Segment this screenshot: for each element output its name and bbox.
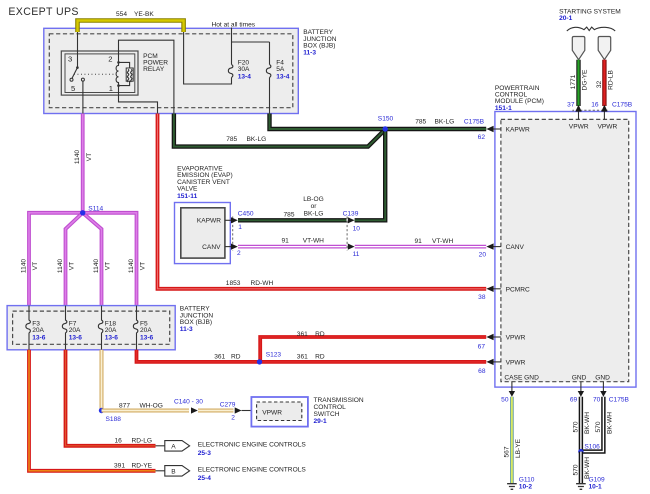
relay dotted link bbox=[74, 73, 116, 75]
connector terminal (to starting system, left) bbox=[572, 37, 585, 60]
svg-text:1140: 1140 bbox=[20, 259, 27, 274]
svg-text:VPWR: VPWR bbox=[506, 360, 526, 367]
svg-text:1140: 1140 bbox=[128, 259, 135, 274]
svg-text:67: 67 bbox=[478, 343, 486, 350]
svg-text:S188: S188 bbox=[106, 416, 122, 423]
svg-text:VT: VT bbox=[32, 262, 39, 270]
svg-text:785: 785 bbox=[226, 136, 237, 143]
PCM pin 70 GND bbox=[593, 374, 630, 403]
svg-text:62: 62 bbox=[478, 134, 486, 141]
svg-text:VPWR: VPWR bbox=[506, 335, 526, 342]
svg-text:361: 361 bbox=[297, 331, 308, 338]
svg-text:570: 570 bbox=[595, 421, 602, 432]
svg-text:VT: VT bbox=[86, 153, 93, 161]
fuse F18 20A bbox=[98, 306, 118, 350]
svg-text:ELECTRONIC ENGINE CONTROLS: ELECTRONIC ENGINE CONTROLS bbox=[198, 442, 307, 449]
wire 877 WH-OG (C140-30 to C279) bbox=[198, 409, 233, 413]
svg-text:30A: 30A bbox=[238, 66, 250, 73]
wire 16 RD-LG (F7 to A) bbox=[66, 350, 156, 446]
svg-text:70: 70 bbox=[593, 397, 601, 404]
svg-text:BK-WH: BK-WH bbox=[584, 412, 591, 434]
label EVAP valve 151-11 bbox=[177, 165, 233, 200]
svg-text:GND: GND bbox=[572, 374, 587, 381]
svg-text:361: 361 bbox=[297, 354, 308, 361]
connector C140-30 bbox=[174, 398, 203, 413]
svg-text:1140: 1140 bbox=[74, 150, 81, 165]
svg-text:VPWR: VPWR bbox=[262, 410, 282, 417]
svg-text:2: 2 bbox=[231, 415, 235, 422]
svg-text:BK-LG: BK-LG bbox=[435, 119, 455, 126]
PCM pin 16 VPWR (top) bbox=[591, 102, 633, 131]
svg-text:1140: 1140 bbox=[93, 259, 100, 274]
svg-text:20A: 20A bbox=[140, 327, 152, 334]
svg-text:C175B: C175B bbox=[609, 397, 630, 404]
svg-text:32: 32 bbox=[596, 81, 603, 89]
svg-text:29-1: 29-1 bbox=[314, 418, 328, 425]
svg-text:EXCEPT UPS: EXCEPT UPS bbox=[8, 6, 78, 18]
svg-text:YE-BK: YE-BK bbox=[134, 11, 154, 18]
svg-text:2: 2 bbox=[237, 250, 241, 257]
svg-text:151-11: 151-11 bbox=[177, 193, 198, 200]
arrow B to electronic engine controls bbox=[156, 466, 307, 482]
label battery junction box 11-3 (lower) bbox=[180, 306, 214, 333]
svg-text:BK-WH: BK-WH bbox=[607, 412, 614, 434]
label 1853 RD-WH bbox=[226, 280, 274, 287]
wire 785 BK-LG (S150 down to C139 pin 10) bbox=[355, 129, 386, 220]
wire 1853 RD-WH (relay pin1 to PCM PCMRC) bbox=[158, 114, 487, 289]
wire 570 BK-WH (pin 69 to S106) bbox=[572, 397, 591, 452]
svg-text:RD: RD bbox=[231, 354, 241, 361]
svg-text:1140: 1140 bbox=[57, 259, 64, 274]
PCM pin 68 VPWR bbox=[478, 359, 525, 375]
PCM pin 62 KAPWR bbox=[478, 126, 530, 141]
svg-text:1853: 1853 bbox=[226, 280, 241, 287]
svg-text:785: 785 bbox=[415, 119, 426, 126]
svg-text:ELECTRONIC ENGINE CONTROLS: ELECTRONIC ENGINE CONTROLS bbox=[198, 467, 307, 474]
svg-text:RD: RD bbox=[315, 331, 325, 338]
wire 785 BK-LG (S150 to PCM KAPWR pin 62) bbox=[385, 119, 486, 129]
splice S106 bbox=[578, 444, 600, 455]
PCM pin 20 CANV bbox=[479, 243, 525, 258]
PCM pin 50 CASE GND bbox=[501, 374, 539, 403]
svg-text:68: 68 bbox=[478, 368, 486, 375]
svg-text:11-3: 11-3 bbox=[180, 326, 193, 333]
svg-text:1: 1 bbox=[238, 224, 242, 231]
connector C139 dashed bbox=[343, 210, 359, 250]
svg-text:RD-YE: RD-YE bbox=[132, 462, 153, 469]
svg-text:BK-LG: BK-LG bbox=[304, 211, 324, 218]
relay pin 1 wire to RD exit bbox=[119, 86, 158, 114]
PCM pin 38 PCMRC bbox=[478, 286, 530, 302]
fuse F4 5A bbox=[266, 59, 289, 80]
splice S123 bbox=[257, 351, 282, 364]
powertrain control module PCM bbox=[495, 112, 636, 388]
svg-text:VPWR: VPWR bbox=[598, 124, 618, 131]
svg-text:20A: 20A bbox=[69, 327, 81, 334]
svg-text:CASE GND: CASE GND bbox=[504, 374, 539, 381]
wire 361 RD (S123 up to PCM VPWR pin 67) bbox=[260, 331, 486, 362]
svg-text:50: 50 bbox=[501, 397, 509, 404]
svg-text:361: 361 bbox=[214, 354, 225, 361]
svg-text:91: 91 bbox=[415, 238, 423, 245]
wire from YE-BK drop to F20 bottom (inside BJB) bbox=[184, 32, 232, 84]
svg-text:C279: C279 bbox=[220, 401, 236, 408]
svg-text:CANV: CANV bbox=[202, 244, 221, 251]
svg-text:13-4: 13-4 bbox=[238, 74, 252, 81]
svg-text:RD-LG: RD-LG bbox=[132, 437, 153, 444]
EVAP pin 2 bbox=[225, 244, 241, 257]
relay coil bbox=[116, 61, 133, 87]
svg-text:11: 11 bbox=[353, 251, 360, 258]
wire 877 WH-OG (S188 to C140-30) bbox=[102, 402, 190, 410]
svg-text:C139: C139 bbox=[343, 210, 359, 217]
PCM pin 67 VPWR bbox=[478, 334, 526, 351]
svg-text:C140 - 30: C140 - 30 bbox=[174, 398, 203, 405]
svg-text:RD-WH: RD-WH bbox=[251, 280, 274, 287]
svg-text:RELAY: RELAY bbox=[143, 66, 165, 73]
svg-text:38: 38 bbox=[478, 294, 486, 301]
connector C175B dashed notch (PCM top) bbox=[573, 110, 609, 111]
svg-text:LB-YE: LB-YE bbox=[515, 438, 522, 458]
svg-text:C450: C450 bbox=[238, 210, 254, 217]
EVAP canister vent valve U-EVAP bbox=[175, 203, 231, 264]
svg-text:VT: VT bbox=[69, 262, 76, 270]
fuse F7 20A bbox=[62, 306, 82, 350]
svg-text:VALVE: VALVE bbox=[177, 186, 198, 193]
svg-text:5A: 5A bbox=[276, 66, 285, 73]
svg-text:91: 91 bbox=[282, 238, 290, 245]
svg-text:11-3: 11-3 bbox=[303, 49, 316, 56]
svg-text:570: 570 bbox=[572, 421, 579, 432]
svg-text:13-6: 13-6 bbox=[105, 335, 119, 342]
svg-text:S150: S150 bbox=[378, 116, 394, 123]
svg-text:SWITCH: SWITCH bbox=[314, 411, 340, 418]
label transmission control switch 29-1 bbox=[314, 397, 364, 425]
svg-text:S123: S123 bbox=[266, 351, 282, 358]
battery junction box BJB (lower) bbox=[7, 306, 175, 350]
svg-text:WH-OG: WH-OG bbox=[140, 402, 163, 409]
svg-text:69: 69 bbox=[570, 397, 578, 404]
svg-text:1: 1 bbox=[109, 84, 113, 93]
svg-text:PCMRC: PCMRC bbox=[506, 286, 530, 293]
fuse F5 20A bbox=[133, 306, 153, 350]
svg-text:VT-WH: VT-WH bbox=[303, 238, 324, 245]
svg-text:16: 16 bbox=[115, 437, 123, 444]
wire 1140 VT branch 1 bbox=[20, 213, 82, 306]
wire 361 RD (F5 to S123 to PCM VPWR pin 68) bbox=[137, 350, 487, 362]
battery junction box BJB (top) bbox=[44, 28, 298, 113]
EVAP pin 1 bbox=[225, 217, 242, 231]
splice S114 bbox=[80, 210, 85, 215]
svg-text:785: 785 bbox=[284, 211, 295, 218]
svg-text:20: 20 bbox=[479, 252, 487, 259]
svg-text:KAPWR: KAPWR bbox=[197, 218, 221, 225]
label 554 YE-BK bbox=[116, 11, 154, 18]
wire F4 bottom down to BJB edge bbox=[269, 78, 271, 114]
relay pin 2 wire to F4 drop bbox=[119, 40, 174, 113]
wire 1140 VT branch 4 bbox=[83, 213, 147, 306]
label PCM POWER RELAY bbox=[143, 53, 168, 73]
wire 785 BK-LG (relay pin2 branch to S150) bbox=[174, 114, 385, 147]
fuse F20 30A bbox=[228, 59, 251, 80]
wire 785 BK-LG (F4 branch to S150) bbox=[270, 114, 386, 130]
svg-text:RD-LB: RD-LB bbox=[608, 70, 615, 90]
svg-text:VPWR: VPWR bbox=[569, 124, 589, 131]
svg-text:554: 554 bbox=[116, 11, 127, 18]
wire 554 YE-BK bbox=[78, 21, 184, 33]
wire 567 LB-YE (pin 50 to G110) bbox=[503, 397, 522, 484]
svg-text:CANV: CANV bbox=[506, 244, 525, 251]
svg-text:or: or bbox=[311, 203, 318, 210]
svg-text:16: 16 bbox=[591, 102, 599, 109]
svg-text:10-2: 10-2 bbox=[519, 483, 533, 490]
C139 pin 10 bbox=[348, 217, 360, 232]
wire 391 RD-YE (F3 to B) bbox=[29, 350, 156, 471]
transmission control switch box bbox=[251, 397, 308, 427]
svg-text:RD: RD bbox=[315, 354, 325, 361]
PCM pin 37 VPWR (top) bbox=[567, 102, 589, 131]
svg-text:2: 2 bbox=[108, 54, 112, 63]
svg-text:151-1: 151-1 bbox=[495, 105, 512, 112]
continuation brace bbox=[567, 27, 615, 31]
svg-text:GND: GND bbox=[595, 374, 610, 381]
svg-text:570: 570 bbox=[572, 464, 579, 475]
label 785 BK-LG bbox=[226, 136, 266, 143]
ground G110 bbox=[507, 477, 535, 491]
svg-text:C175B: C175B bbox=[612, 102, 633, 109]
svg-text:20A: 20A bbox=[32, 327, 44, 334]
label 1140 VT vertical bbox=[74, 150, 93, 165]
wire 91 VT-WH (C139 to PCM CANV pin 20) bbox=[355, 238, 486, 247]
wire 1771 DG-YE bbox=[570, 60, 589, 106]
relay switch blade bbox=[70, 66, 84, 81]
ground G109 bbox=[576, 477, 605, 491]
wire 877 WH-OG (F18 to S188) bbox=[100, 350, 104, 411]
svg-text:13-4: 13-4 bbox=[276, 74, 290, 81]
svg-text:KAPWR: KAPWR bbox=[506, 127, 530, 134]
connector terminal (to starting system, right) bbox=[598, 37, 611, 60]
svg-text:C175B: C175B bbox=[464, 119, 485, 126]
svg-text:DG-YE: DG-YE bbox=[582, 69, 589, 90]
svg-text:20-1: 20-1 bbox=[559, 15, 573, 22]
svg-text:25-3: 25-3 bbox=[198, 450, 212, 457]
PCM pin 69 GND bbox=[570, 374, 587, 403]
wire 570 BK-WH (pin 70 to S106) bbox=[583, 397, 614, 452]
svg-text:A: A bbox=[171, 443, 176, 450]
svg-text:10: 10 bbox=[353, 225, 361, 232]
svg-text:BK-LG: BK-LG bbox=[247, 136, 267, 143]
connector C450 dashed bbox=[233, 210, 254, 250]
wire 1140 VT branch 2 bbox=[57, 213, 83, 306]
svg-text:VT: VT bbox=[105, 262, 112, 270]
wire 570 BK-WH (S106 to G109) bbox=[572, 452, 591, 484]
fuse F3 20A bbox=[26, 306, 46, 350]
wire hot feed to fuses (inside BJB) bbox=[232, 28, 270, 65]
svg-text:20A: 20A bbox=[105, 327, 117, 334]
wire 32 RD-LB bbox=[596, 60, 615, 106]
relay pin 3 wire bbox=[77, 32, 79, 68]
svg-text:5: 5 bbox=[71, 84, 75, 93]
svg-text:13-6: 13-6 bbox=[69, 335, 83, 342]
svg-text:S106: S106 bbox=[584, 444, 600, 451]
splice S150 bbox=[378, 116, 394, 132]
wire 785 LB-OG/BK-LG (C450 to C139 pin 10) bbox=[238, 196, 347, 220]
label powertrain control module 151-1 bbox=[495, 85, 544, 112]
svg-text:13-6: 13-6 bbox=[140, 335, 154, 342]
svg-text:567: 567 bbox=[503, 446, 510, 457]
wire 91 VT-WH (CANV to C139 pin 11) bbox=[238, 238, 347, 247]
svg-text:B: B bbox=[171, 468, 176, 475]
connector C279 pin 2 bbox=[220, 401, 242, 421]
relay pin 5 wire bbox=[82, 81, 84, 113]
label battery junction box 11-3 bbox=[303, 29, 337, 56]
splice S188 bbox=[99, 408, 121, 423]
svg-text:Hot at all times: Hot at all times bbox=[212, 21, 256, 28]
arrow A to electronic engine controls bbox=[156, 441, 307, 457]
wire 1140 VT (relay to S114) bbox=[81, 114, 85, 213]
wire into TCS bbox=[242, 410, 257, 412]
svg-text:37: 37 bbox=[567, 102, 575, 109]
svg-text:VT: VT bbox=[140, 262, 147, 270]
svg-text:25-4: 25-4 bbox=[198, 475, 212, 482]
svg-text:13-6: 13-6 bbox=[32, 335, 46, 342]
label starting system 20-1 bbox=[559, 8, 621, 22]
svg-text:877: 877 bbox=[119, 402, 130, 409]
svg-text:391: 391 bbox=[114, 462, 125, 469]
svg-text:1771: 1771 bbox=[570, 74, 577, 89]
svg-text:VT-WH: VT-WH bbox=[432, 238, 453, 245]
svg-text:10-1: 10-1 bbox=[589, 483, 603, 490]
wire 1140 VT branch 3 bbox=[83, 213, 112, 306]
C139 pin 11 bbox=[348, 244, 360, 259]
PCM power relay bbox=[61, 51, 138, 95]
svg-text:3: 3 bbox=[68, 54, 72, 63]
